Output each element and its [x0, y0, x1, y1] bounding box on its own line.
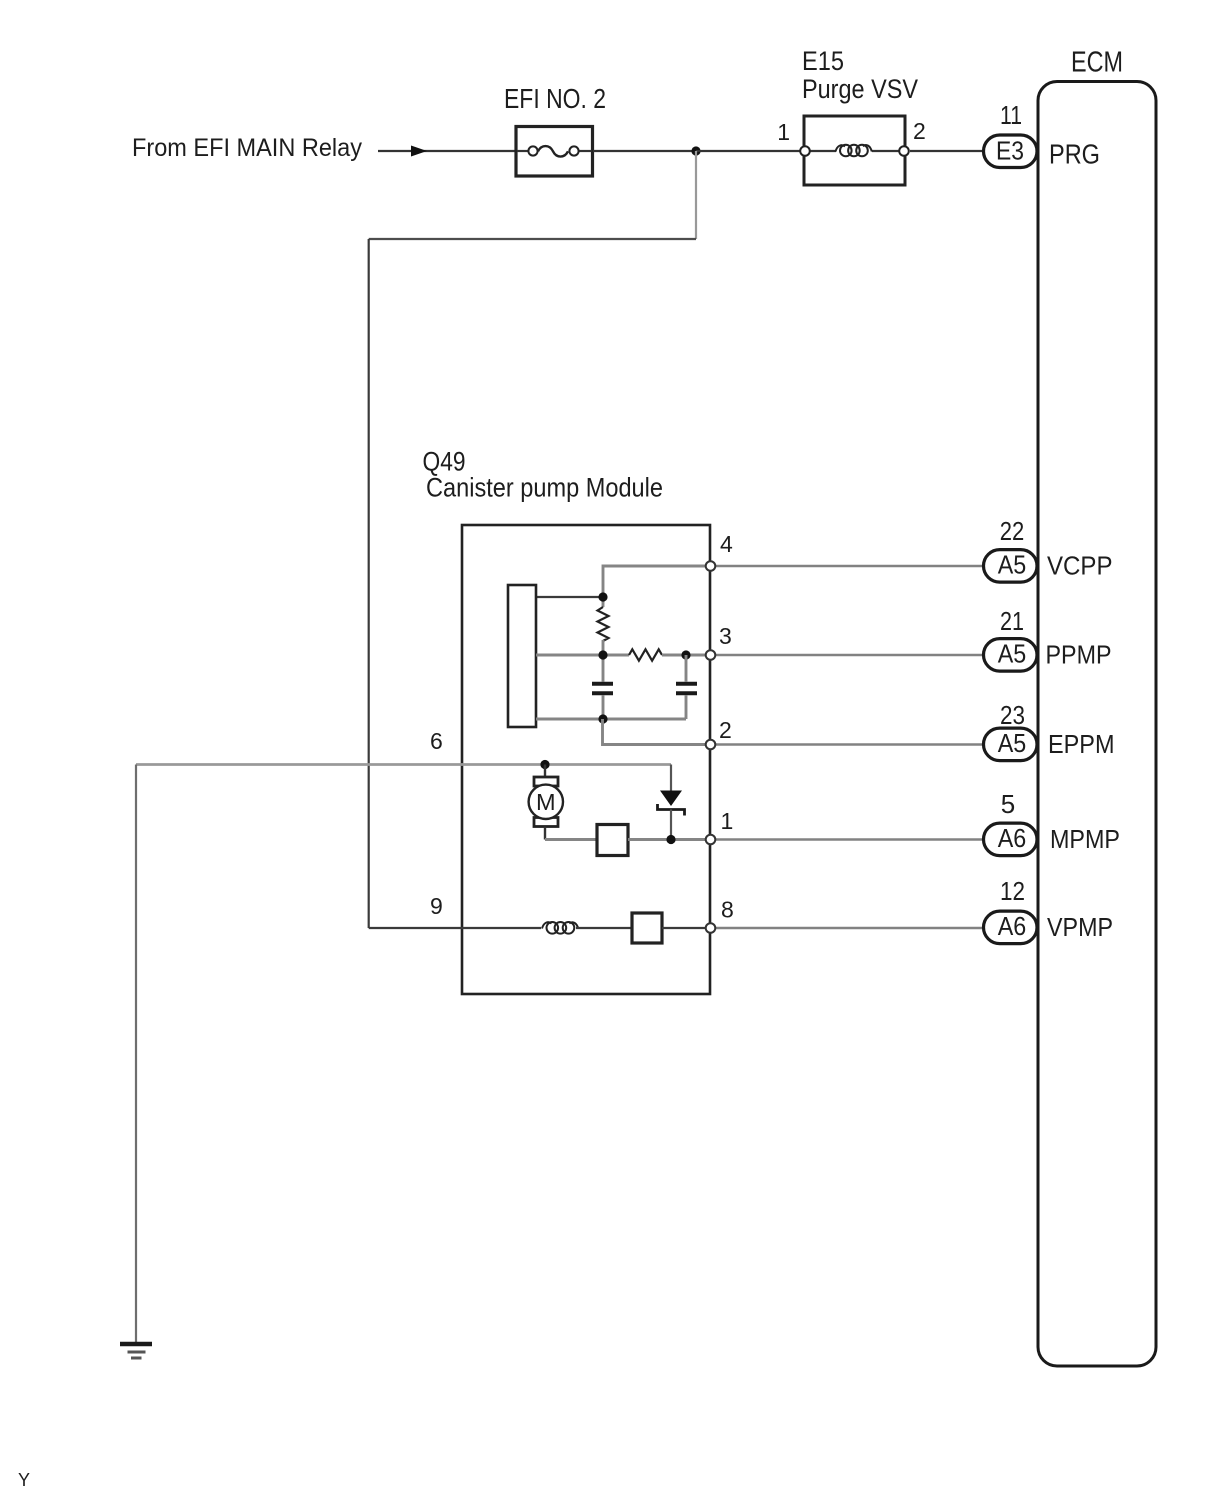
svg-text:PPMP: PPMP [1046, 640, 1112, 670]
node junction after fuse [691, 146, 700, 155]
svg-text:A6: A6 [998, 911, 1027, 941]
driver block (motor) [597, 825, 628, 856]
connector A6 (VPMP) [984, 911, 1038, 944]
pin 3 terminal circle [706, 650, 716, 660]
connector A5 (EPPM) [984, 728, 1038, 761]
motor M [529, 765, 563, 827]
svg-text:MPMP: MPMP [1050, 824, 1120, 854]
wire pin 6 rail to ground [135, 765, 137, 1343]
capacitor C2 [676, 684, 697, 694]
svg-text:M: M [536, 789, 556, 815]
wire C2 bottom stub [685, 695, 688, 719]
svg-text:Purge VSV: Purge VSV [802, 74, 918, 104]
svg-text:1: 1 [721, 808, 734, 834]
svg-text:8: 8 [721, 897, 734, 923]
ECM body [1038, 82, 1156, 1367]
wire across to left [369, 238, 696, 240]
arrowhead on feed wire [411, 146, 427, 157]
wire pin 6 supply rail [136, 763, 671, 766]
wire VSV pin 2 to connector E3 [910, 150, 982, 152]
svg-text:EFI NO. 2: EFI NO. 2 [504, 83, 606, 114]
pin 2 terminal circle [706, 740, 716, 750]
ground [120, 1344, 152, 1358]
zener diode D1 [658, 791, 685, 816]
svg-text:EPPM: EPPM [1048, 729, 1115, 759]
wire pin 8 to connector A6 [716, 927, 982, 930]
resistor R2 (horizontal) [629, 649, 662, 660]
inductor L1 [542, 922, 578, 934]
connector A6 (MPMP) [984, 823, 1038, 856]
wire motor to driver block [545, 838, 597, 841]
wire sensor mid terminal [536, 654, 629, 657]
wire sensor top terminal [536, 596, 603, 598]
wire left vertical down to pin 9 row [368, 239, 370, 928]
wire resistor R1 to mid rail [602, 640, 605, 682]
wire diode branch lower [670, 810, 672, 840]
svg-text:22: 22 [1000, 516, 1025, 546]
wire pin 9 row into module [369, 927, 541, 929]
wire diode branch upper [670, 765, 672, 791]
svg-text:2: 2 [913, 118, 926, 144]
svg-text:PRG: PRG [1049, 139, 1100, 170]
resistor R1 (vertical) [598, 607, 609, 641]
solenoid valve E15 Purge VSV [800, 116, 909, 185]
node diode to pin 1 junction [666, 835, 675, 844]
connector E3 [984, 135, 1038, 168]
wire inductor to sensor block [576, 927, 632, 929]
svg-text:21: 21 [1000, 606, 1024, 636]
svg-text:Canister pump Module: Canister pump Module [426, 473, 663, 503]
wire pin 3 to connector A5 [716, 654, 982, 657]
wire C1 bottom stub [602, 695, 605, 719]
node bottom rail junction [598, 714, 607, 723]
wire bottom rail to pin 2 [603, 719, 706, 745]
fuse EFI NO. 2 [516, 127, 593, 177]
pin 8 terminal circle [706, 923, 716, 933]
wire junction drop down [695, 151, 697, 239]
svg-text:A5: A5 [998, 550, 1027, 580]
node sensor top junction [598, 592, 607, 601]
wire fuse to junction node [593, 150, 696, 152]
svg-text:2: 2 [719, 717, 732, 743]
svg-text:9: 9 [430, 893, 443, 919]
wire from EFI MAIN relay to fuse [378, 150, 515, 152]
svg-text:A5: A5 [998, 728, 1027, 758]
svg-text:A6: A6 [998, 823, 1027, 853]
svg-text:A5: A5 [998, 639, 1027, 669]
svg-text:23: 23 [1000, 700, 1025, 730]
wire pin 1 to connector A6 [716, 838, 982, 841]
svg-text:1: 1 [777, 119, 790, 145]
svg-text:4: 4 [720, 531, 733, 557]
wire driver block to pin 1 [628, 838, 705, 841]
svg-text:VCPP: VCPP [1047, 551, 1113, 581]
wire sensor block to pin 8 [662, 927, 705, 929]
svg-text:3: 3 [719, 623, 732, 649]
module box Q49 [462, 525, 710, 994]
capacitor C1 [592, 684, 613, 694]
wire bottom rail (sensor low terminal) [536, 718, 686, 721]
svg-text:Y: Y [18, 1470, 30, 1490]
svg-text:E3: E3 [996, 136, 1024, 166]
pressure sensor element [508, 585, 536, 727]
node R2 output junction [681, 650, 690, 659]
node motor tap on pin 6 rail [540, 760, 549, 769]
wire resistor R2 to pin 3 [662, 654, 705, 657]
connector A5 (VCPP) [984, 550, 1038, 583]
svg-text:VPMP: VPMP [1047, 912, 1113, 942]
svg-text:E15: E15 [802, 46, 844, 76]
svg-text:5: 5 [1001, 789, 1015, 819]
connector A5 (PPMP) [984, 639, 1038, 672]
wire pin 4 to resistor top [603, 566, 705, 607]
pin 4 terminal circle [706, 561, 716, 571]
svg-text:11: 11 [1000, 100, 1022, 130]
svg-text:ECM: ECM [1071, 47, 1123, 79]
svg-text:12: 12 [1000, 876, 1025, 906]
wire pin 2 to connector A5 [716, 743, 982, 746]
svg-text:From EFI MAIN Relay: From EFI MAIN Relay [132, 134, 362, 162]
node mid rail junction [598, 650, 607, 659]
sensor block (pump) [632, 913, 662, 943]
svg-text:6: 6 [430, 728, 443, 754]
wire motor bottom stub [544, 827, 546, 840]
wire C2 top stub [685, 655, 688, 682]
pin 1 terminal circle [706, 835, 716, 845]
wire junction to VSV pin 1 [696, 150, 800, 152]
wire pin 4 to connector A5 [716, 565, 982, 568]
